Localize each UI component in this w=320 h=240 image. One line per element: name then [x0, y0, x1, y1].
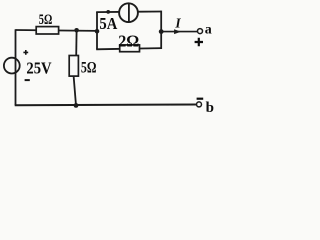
- junction node dot 1 (top of middle branch): [74, 28, 79, 33]
- wire: bottom rail to terminal b: [15, 104, 197, 107]
- polarity plus near voltage source: [23, 50, 28, 55]
- wire: middle branch vertical lower: [74, 76, 76, 106]
- svg-text:2Ω: 2Ω: [118, 32, 139, 51]
- resistor R3 2 ohm: [120, 45, 140, 52]
- junction node dot 3 (block right rail mid): [159, 29, 164, 34]
- svg-text:5Ω: 5Ω: [81, 60, 97, 77]
- polarity minus at terminal b: [197, 98, 204, 100]
- voltage source V1 circle 25V: [4, 58, 20, 74]
- junction node dot 4 (bottom of middle branch): [74, 103, 79, 108]
- current arrow head on output lead: [174, 29, 181, 34]
- wire: parallel block right rail: [160, 11, 162, 49]
- wire: left rail vertical through source: [15, 29, 17, 105]
- wire: parallel block bottom branch (through 2 ohm): [96, 48, 162, 49]
- svg-text:25V: 25V: [26, 59, 51, 78]
- wire: middle branch vertical upper: [75, 30, 77, 56]
- svg-text:5Ω: 5Ω: [39, 12, 53, 28]
- svg-text:b: b: [206, 100, 214, 116]
- junction node dot 2 (main wire meets block left rail): [95, 29, 100, 34]
- svg-text:I: I: [174, 15, 181, 30]
- terminal a open circle: [198, 29, 203, 34]
- terminal b open circle: [197, 102, 202, 107]
- resistor R2 5 ohm vertical middle: [69, 56, 78, 77]
- svg-text:a: a: [205, 23, 212, 38]
- wire: top main horizontal (source to node 1): [16, 29, 98, 32]
- current source U1 internal arrow line: [128, 4, 130, 22]
- resistor R1 5 ohm horizontal top-left: [36, 27, 58, 34]
- wire: parallel block left rail: [96, 12, 98, 50]
- wire: parallel block top branch (through 5A source): [96, 11, 161, 14]
- svg-text:5A: 5A: [99, 14, 117, 33]
- wire: output lead to terminal a: [161, 31, 197, 33]
- current source U1 circle 5A: [119, 3, 138, 22]
- polarity minus near voltage source: [25, 79, 30, 81]
- polarity plus at terminal a: [195, 38, 203, 46]
- junction blob on top branch: [106, 10, 110, 14]
